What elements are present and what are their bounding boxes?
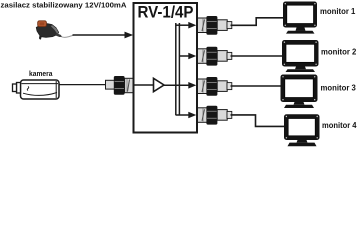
svg-text:monitor 4: monitor 4 [322,121,357,130]
output cable 3 to monitor 3 [231,85,282,87]
amplifier input line [135,84,154,86]
input BNC connector [106,76,134,95]
output cable 1 to monitor 1 [231,18,284,26]
svg-text:zasilacz stabilizowany 12V/100: zasilacz stabilizowany 12V/100mA [1,0,127,9]
output cable 2 to monitor 2 [231,55,283,57]
svg-text:monitor 1: monitor 1 [320,7,356,16]
amp output line to output 3 [164,84,190,86]
svg-text:monitor 3: monitor 3 [321,84,357,93]
output BNC connector 2 [198,47,232,66]
amplifier triangle [154,78,165,91]
output BNC connector 1 [198,16,232,35]
svg-text:kamera: kamera [29,69,53,78]
monitor 3 [281,75,318,109]
svg-text:RV-1/4P: RV-1/4P [138,3,194,21]
DC power plug [36,21,62,40]
monitor 1 [283,2,317,34]
power line with arrow into box [73,34,127,36]
output BNC connector 3 [198,77,232,96]
camera cable to input connector [59,84,106,86]
monitor 2 [282,40,319,72]
plug cable to power line [62,35,74,37]
monitor 4 [284,114,320,146]
camera [13,80,60,99]
output BNC connector 4 [198,106,232,125]
RV-1/4P box [134,3,198,133]
branch to output 2 [179,55,189,57]
svg-text:monitor 2: monitor 2 [321,47,357,56]
branch to output 1 [176,24,190,26]
output cable 4 to monitor 4 [231,115,285,127]
branch to output 4 [176,114,190,116]
distribution bus [175,23,177,115]
